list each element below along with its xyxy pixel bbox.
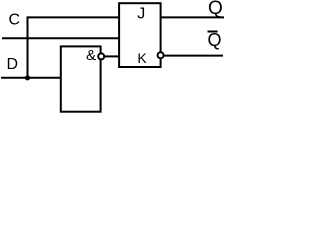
svg-text:Q: Q	[208, 0, 223, 19]
svg-text:Q: Q	[208, 30, 222, 50]
svg-text:D: D	[7, 56, 19, 73]
wire Qbar output	[164, 55, 223, 57]
wire D input	[1, 77, 62, 79]
inverter U1 (NAND & gate) box	[61, 46, 101, 111]
overline of Qbar	[208, 31, 218, 33]
wire Q output	[161, 16, 224, 18]
svg-text:K: K	[137, 50, 147, 66]
flip-flop U2 (JK) box	[119, 3, 161, 67]
U2 Qbar output bubble	[158, 52, 164, 58]
wire U1 output to K input	[104, 55, 119, 57]
wire C (clock) input	[2, 37, 119, 39]
svg-text:&: &	[86, 47, 96, 64]
svg-text:J: J	[137, 6, 145, 23]
node junction D/J	[25, 75, 30, 80]
wire D to J (horizontal + vertical)	[28, 17, 120, 77]
svg-text:C: C	[9, 12, 21, 29]
U1 output bubble	[98, 53, 104, 59]
